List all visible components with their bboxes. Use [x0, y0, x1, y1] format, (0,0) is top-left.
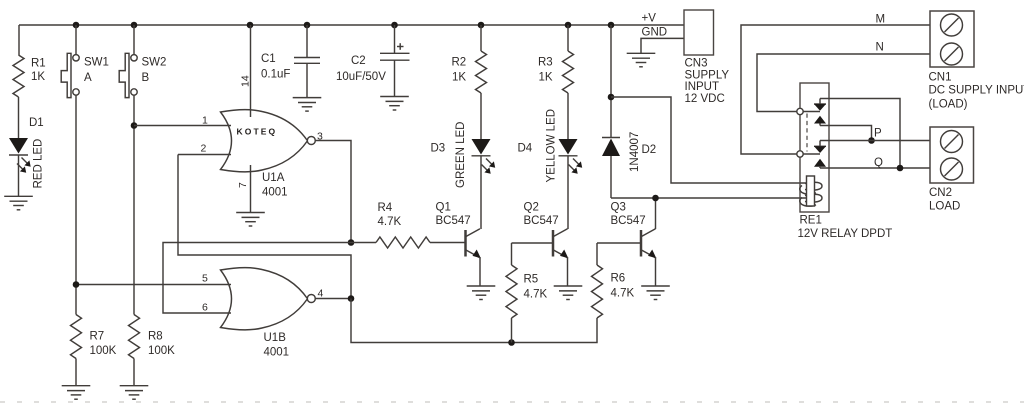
- wire bus to SW1: [75, 25, 77, 55]
- node junction +V / D2: [608, 22, 615, 29]
- ground (supply GND): [627, 53, 656, 67]
- wire Q to CN2: [820, 167, 930, 169]
- node P junction: [868, 137, 875, 144]
- svg-text:P: P: [874, 128, 882, 140]
- svg-text:YELLOW LED: YELLOW LED: [546, 109, 558, 183]
- ground (D1): [4, 196, 33, 210]
- wire D2 anode down: [610, 156, 612, 198]
- ground (Q1 emitter): [467, 286, 496, 300]
- svg-text:D2: D2: [642, 144, 657, 156]
- connector CN1 DC SUPPLY INPUT (LOAD): [929, 11, 1024, 111]
- svg-text:Q3: Q3: [611, 202, 626, 214]
- wire D3 to Q1 collector: [480, 156, 482, 229]
- op-amp U1B 4001 NOR gate: [221, 268, 316, 359]
- ground (R7): [62, 386, 91, 400]
- svg-text:BC547: BC547: [611, 215, 646, 227]
- relay coil: [800, 176, 822, 206]
- wire M from CN1 to relay pole-2 common: [741, 25, 930, 154]
- wire SW1 to node A: [75, 95, 77, 285]
- ground (U1A pin 7): [236, 213, 265, 227]
- node junction C2 top: [391, 22, 398, 29]
- wire top +V bus: [19, 24, 684, 26]
- switch SW1 A: [61, 53, 109, 97]
- resistor R3: [538, 25, 574, 93]
- svg-text:R4: R4: [378, 202, 393, 214]
- transistor Q1 BC547: [436, 202, 481, 287]
- svg-text:GND: GND: [642, 27, 668, 39]
- ground (R8): [120, 386, 149, 400]
- resistor R2: [452, 25, 487, 93]
- node junction SW1 / R7 / pin5: [73, 281, 80, 288]
- wire U1B pin5 input: [76, 284, 231, 286]
- svg-text:CN1: CN1: [929, 72, 952, 84]
- svg-text:SW2: SW2: [142, 57, 167, 69]
- node Q junction: [897, 165, 904, 172]
- resistor R5: [506, 243, 547, 343]
- wire U1A pin1 input: [134, 125, 231, 127]
- wire relay armature dashed link: [806, 114, 808, 152]
- svg-text:B: B: [142, 72, 150, 84]
- svg-text:A: A: [84, 72, 92, 84]
- svg-text:1N4007: 1N4007: [629, 132, 641, 172]
- LED D3 GREEN LED: [431, 122, 496, 188]
- relay pole-1 NO contact arrow: [814, 116, 826, 126]
- svg-text:4001: 4001: [262, 187, 288, 199]
- LED D1 RED LED: [9, 117, 45, 196]
- wire R6 to Q3 base: [597, 242, 641, 244]
- svg-text:U1B: U1B: [264, 332, 287, 344]
- svg-text:12V RELAY DPDT: 12V RELAY DPDT: [798, 228, 893, 240]
- svg-text:CN3: CN3: [685, 58, 708, 70]
- wire U1B out down to R5/R6 feed: [351, 299, 597, 343]
- wire R1 to D1: [18, 97, 20, 138]
- LED D4 YELLOW LED: [518, 109, 583, 183]
- svg-text:10uF/50V: 10uF/50V: [336, 71, 386, 83]
- capacitor C2 (electrolytic): [336, 25, 410, 97]
- ground (C2): [380, 97, 409, 111]
- svg-text:U1A: U1A: [262, 172, 285, 184]
- svg-text:D3: D3: [431, 143, 446, 155]
- relay pole-2 NC contact arrow: [814, 141, 826, 154]
- wire bus to SW2: [133, 25, 135, 55]
- svg-text:M: M: [876, 14, 886, 26]
- wire U1A pin7 to ground: [250, 165, 252, 213]
- svg-text:SW1: SW1: [84, 57, 109, 69]
- svg-text:R1: R1: [31, 58, 46, 70]
- svg-text:2: 2: [201, 143, 207, 155]
- node junction D2 / relay coil feed: [608, 94, 615, 101]
- svg-text:R6: R6: [611, 273, 626, 285]
- svg-text:4001: 4001: [264, 347, 290, 359]
- connector CN2 LOAD: [929, 127, 974, 213]
- wire P to CN2: [820, 140, 930, 142]
- svg-text:5: 5: [202, 273, 208, 285]
- wire U1A output pin3: [315, 141, 351, 243]
- wire D2 anode to relay coil: [611, 197, 811, 199]
- svg-text:0.1uF: 0.1uF: [261, 69, 290, 81]
- svg-text:+V: +V: [642, 13, 657, 25]
- resistor R7: [71, 315, 117, 386]
- wire node A to R7: [75, 285, 77, 315]
- op-amp U1A 4001 NOR gate: [221, 110, 316, 199]
- svg-text:LOAD: LOAD: [929, 201, 960, 213]
- connector CN3 SUPPLY INPUT 12 VDC: [684, 10, 729, 105]
- wire left drop to R1: [18, 25, 20, 55]
- wire relay pole-1 common: [803, 111, 820, 113]
- node junction R2 top: [478, 22, 485, 29]
- wire Q3 collector: [655, 198, 657, 229]
- svg-text:R3: R3: [538, 57, 553, 69]
- svg-text:D1: D1: [29, 117, 44, 129]
- ground (C1): [293, 98, 322, 112]
- node junction Q3 collector / relay coil: [652, 195, 659, 202]
- svg-text:100K: 100K: [148, 345, 175, 357]
- node junction SW2 / pin1: [131, 122, 138, 129]
- svg-text:4.7K: 4.7K: [524, 289, 548, 301]
- node junction U1A output / R4: [348, 239, 355, 246]
- svg-text:(LOAD): (LOAD): [929, 99, 968, 111]
- svg-text:CN2: CN2: [929, 187, 952, 199]
- svg-text:INPUT: INPUT: [685, 81, 720, 93]
- svg-text:14: 14: [240, 75, 252, 87]
- svg-text:C2: C2: [351, 55, 366, 67]
- svg-text:BC547: BC547: [524, 215, 559, 227]
- wire U1B output pin4: [315, 298, 351, 300]
- svg-text:SUPPLY: SUPPLY: [685, 70, 730, 82]
- wire R2 to D3: [480, 93, 482, 139]
- svg-text:R7: R7: [90, 331, 105, 343]
- transistor Q3 BC547: [611, 202, 657, 287]
- node junction C1 top: [304, 22, 311, 29]
- diode D2 1N4007: [602, 132, 656, 172]
- node junction R3 top: [565, 22, 572, 29]
- wire GND to CN3: [641, 38, 684, 53]
- svg-text:1: 1: [202, 115, 208, 127]
- wire +V to relay coil top: [611, 97, 811, 183]
- node relay pole-1 common pin: [797, 108, 803, 114]
- svg-text:1K: 1K: [452, 72, 466, 84]
- svg-text:12 VDC: 12 VDC: [685, 93, 725, 105]
- svg-text:N: N: [876, 42, 884, 54]
- svg-text:Q2: Q2: [524, 202, 539, 214]
- relay pole-2 NO contact arrow: [814, 159, 826, 168]
- resistor R1: [13, 55, 46, 97]
- svg-text:DC SUPPLY INPUT: DC SUPPLY INPUT: [929, 85, 1024, 97]
- svg-text:KOTEQ: KOTEQ: [237, 127, 278, 137]
- wire SW2 down to R8: [133, 95, 135, 315]
- svg-text:4.7K: 4.7K: [611, 288, 635, 300]
- relay pole-1 NC contact arrow: [814, 99, 826, 111]
- node relay pole-2 common pin: [797, 151, 803, 157]
- wire relay pole-2 common: [803, 153, 820, 155]
- wire relay pole-1 NO to P: [820, 126, 872, 141]
- wire pin 14 of U1A: [250, 25, 252, 117]
- wire D4 to Q2 collector: [567, 156, 569, 229]
- svg-text:6: 6: [202, 302, 208, 314]
- svg-text:C1: C1: [261, 53, 276, 65]
- svg-text:GREEN LED: GREEN LED: [455, 122, 467, 188]
- svg-text:R2: R2: [452, 57, 467, 69]
- transistor Q2 BC547: [524, 202, 569, 287]
- wire R5 to Q2 base: [512, 242, 553, 244]
- svg-text:D4: D4: [518, 143, 533, 155]
- resistor R8: [129, 315, 176, 386]
- ground (Q3 emitter): [641, 286, 670, 300]
- node junction R5 bottom: [508, 339, 515, 346]
- node junction U1B output: [348, 295, 355, 302]
- wire U1A out to U1B pin6: [163, 243, 351, 314]
- svg-text:RE1: RE1: [800, 215, 822, 227]
- switch SW2 B: [119, 53, 166, 97]
- wire N from CN1 to relay pole-1 common: [757, 54, 930, 112]
- ground (Q2 emitter): [554, 286, 583, 300]
- node junction SW1 top: [73, 22, 80, 29]
- node junction pin14: [247, 22, 254, 29]
- relay RE1 12V RELAY DPDT: [798, 83, 893, 240]
- wire R3 to D4: [567, 93, 569, 139]
- svg-text:1K: 1K: [539, 72, 553, 84]
- svg-text:Q1: Q1: [436, 202, 451, 214]
- wire +V branch down: [610, 25, 612, 137]
- wire relay pole-1 NC to Q: [820, 99, 900, 169]
- node junction SW2 top: [131, 22, 138, 29]
- svg-text:RED LED: RED LED: [33, 139, 45, 189]
- svg-text:7: 7: [237, 182, 249, 188]
- svg-text:4.7K: 4.7K: [378, 216, 402, 228]
- svg-text:BC547: BC547: [436, 215, 471, 227]
- svg-text:R8: R8: [148, 331, 163, 343]
- wire U1B out to U1A pin2: [178, 155, 351, 299]
- svg-text:1K: 1K: [31, 71, 45, 83]
- resistor R4: [351, 202, 465, 248]
- wire U1A pin2 input: [178, 154, 231, 156]
- capacitor C1: [261, 25, 320, 98]
- resistor R6: [592, 243, 635, 318]
- svg-text:4: 4: [318, 288, 324, 300]
- svg-text:R5: R5: [524, 274, 539, 286]
- svg-text:100K: 100K: [90, 345, 117, 357]
- svg-text:Q: Q: [874, 157, 883, 169]
